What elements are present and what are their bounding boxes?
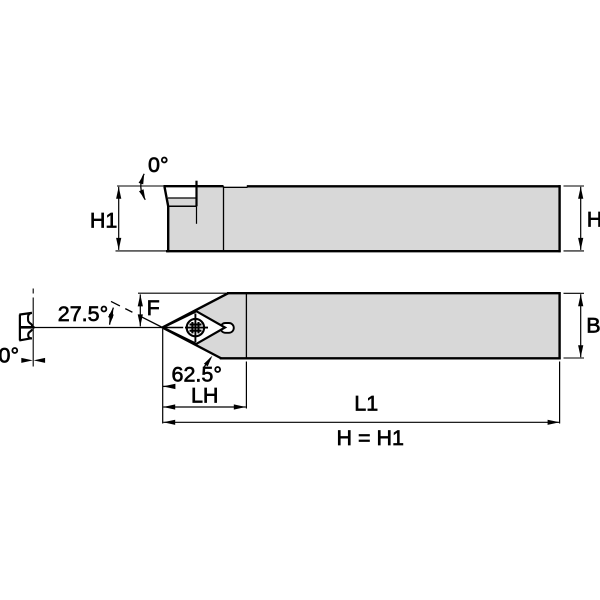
svg-text:L1: L1 xyxy=(354,392,378,416)
svg-text:27.5°: 27.5° xyxy=(58,302,108,326)
svg-text:F: F xyxy=(147,296,160,320)
svg-text:H1: H1 xyxy=(90,209,117,233)
svg-text:H: H xyxy=(587,208,600,232)
svg-text:0°: 0° xyxy=(148,153,169,177)
svg-text:0°: 0° xyxy=(0,343,19,367)
svg-text:H = H1: H = H1 xyxy=(336,426,404,450)
svg-text:LH: LH xyxy=(191,384,218,408)
svg-text:B: B xyxy=(586,314,600,338)
